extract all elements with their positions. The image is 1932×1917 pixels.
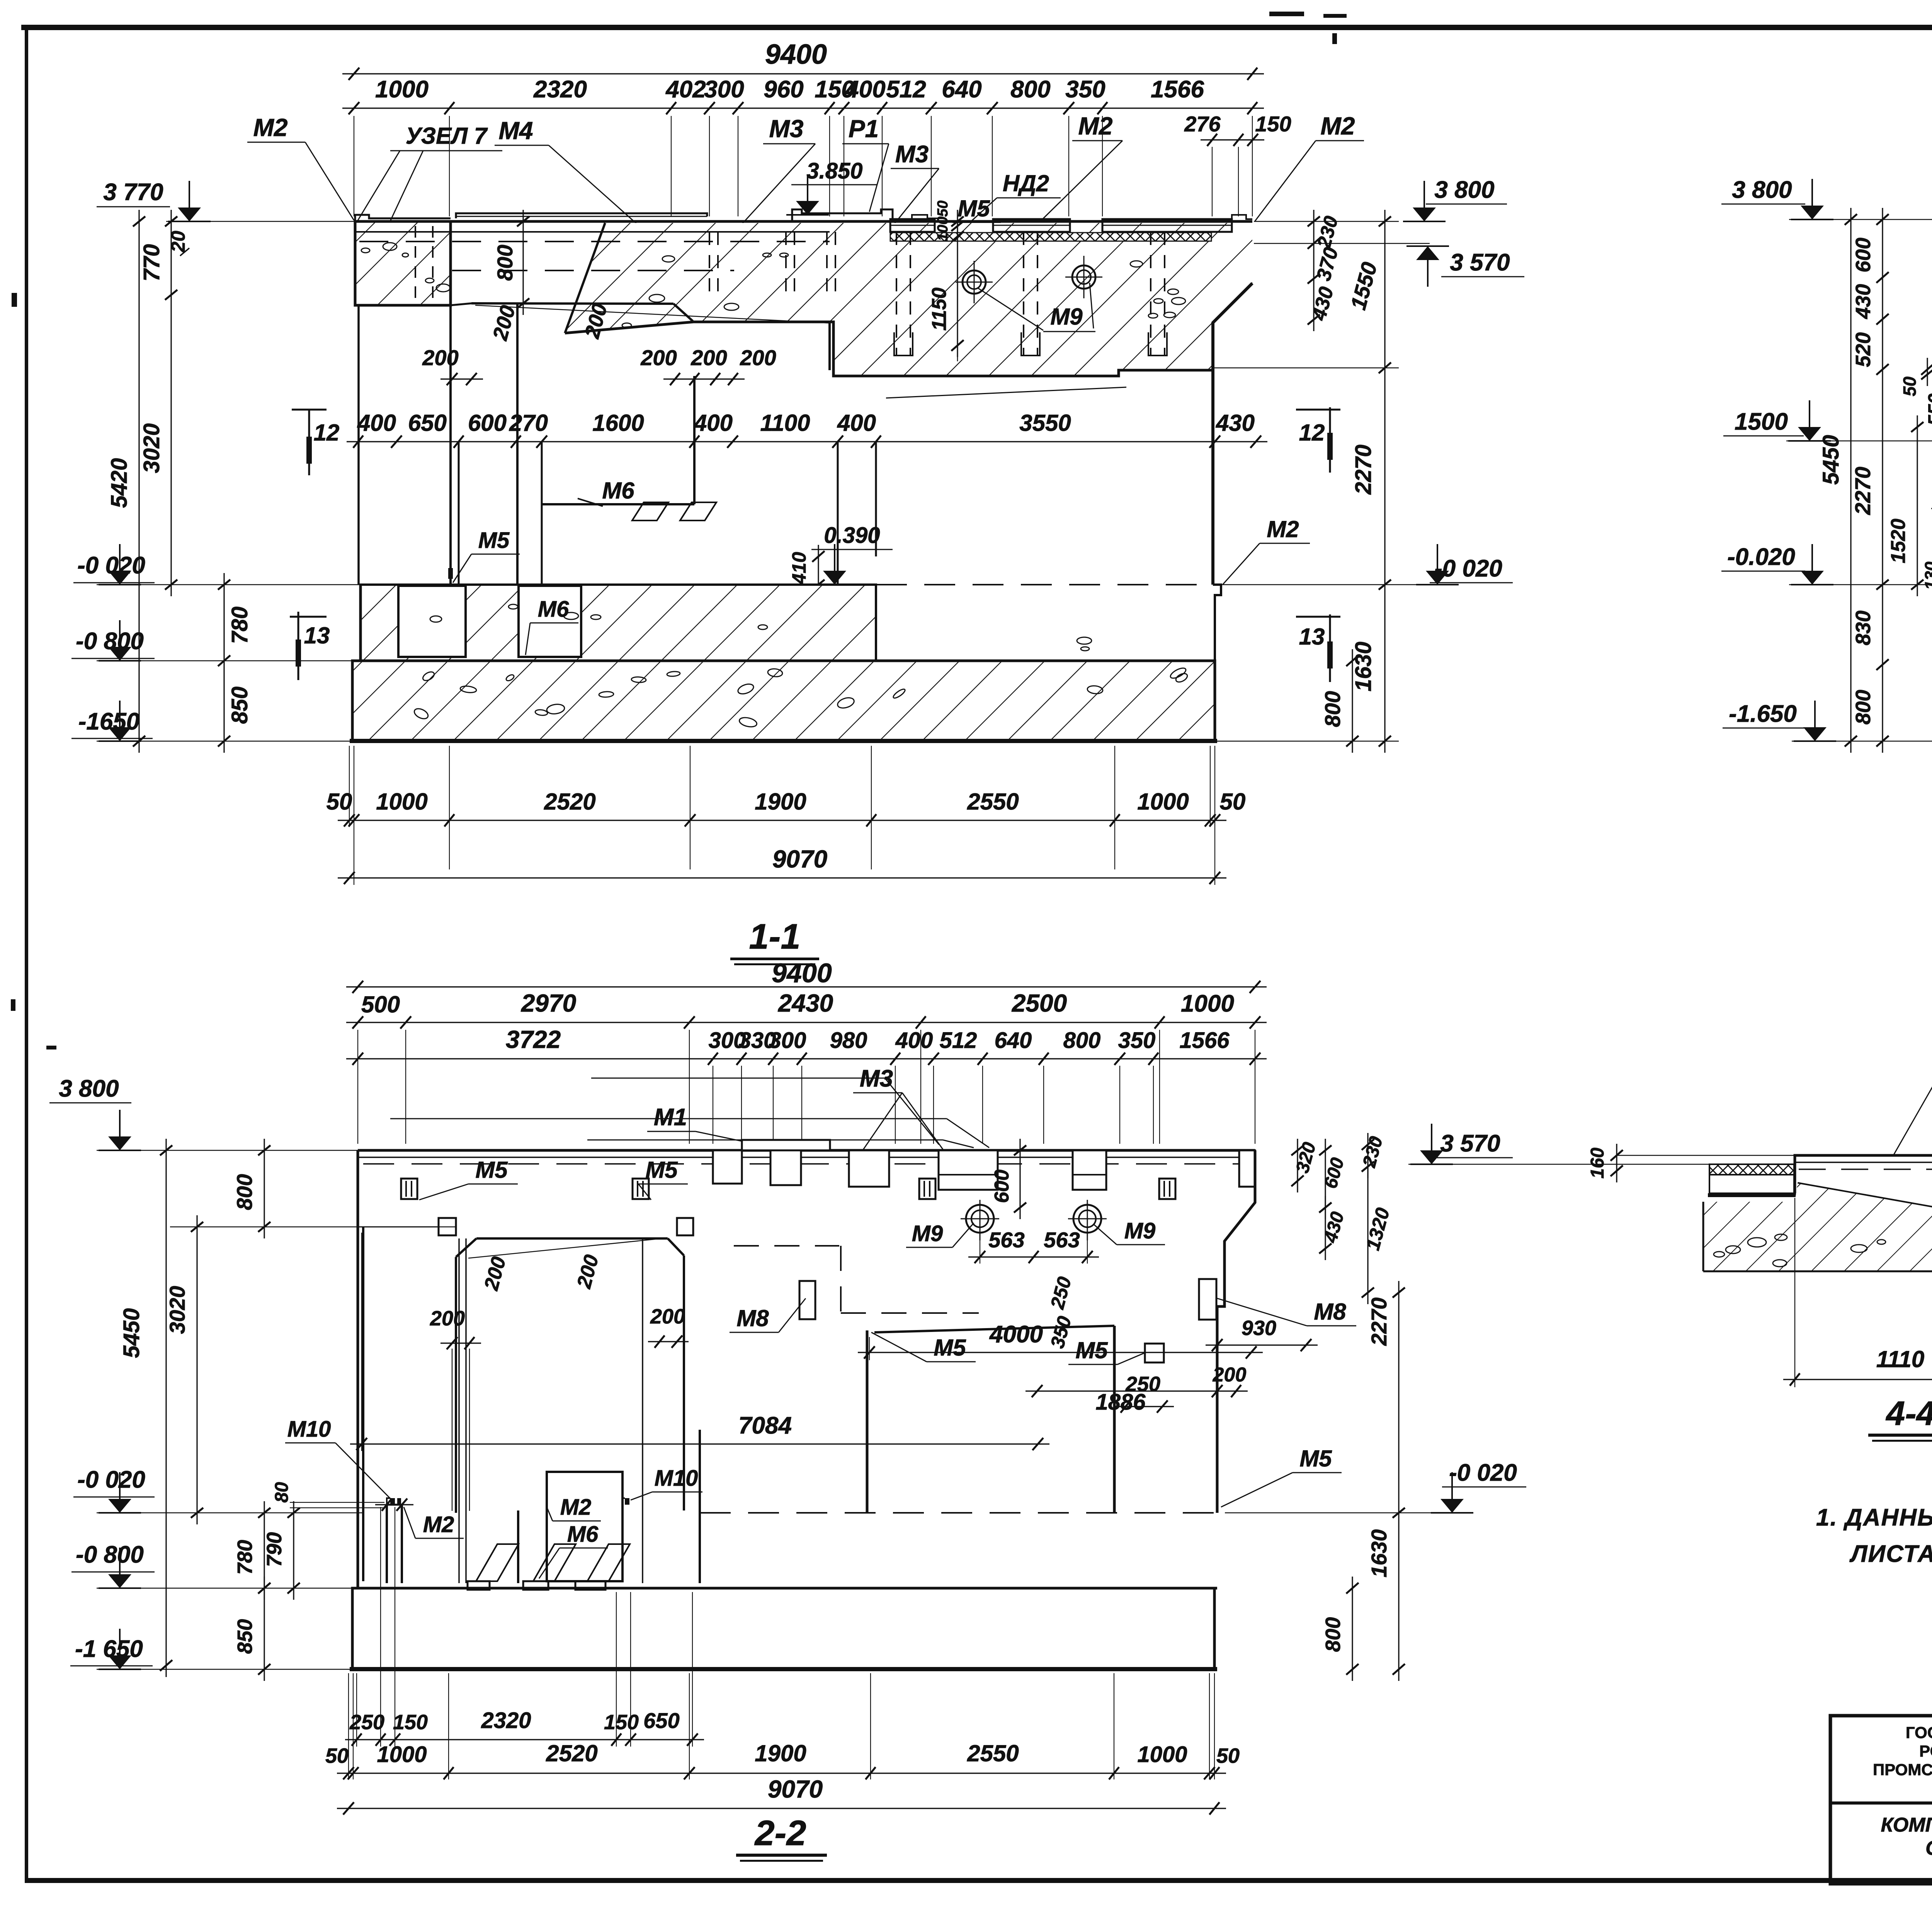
- dashed hidden line at -0.020 right part: [876, 584, 1213, 585]
- svg-text:-0.020: -0.020: [1727, 544, 1795, 570]
- section 2-2 dim row 3722 and small dims: [346, 1058, 1267, 1059]
- svg-text:2270: 2270: [1367, 1298, 1391, 1346]
- svg-text:КОМПРЕССОРНАЯ: КОМПРЕССОРНАЯ: [1881, 1814, 1932, 1836]
- top right corner curb: [1232, 215, 1252, 219]
- svg-text:600: 600: [468, 410, 507, 436]
- svg-text:410: 410: [788, 552, 810, 585]
- section 1-1 bottom footing slab hatched: [352, 661, 1215, 741]
- svg-text:1. ДАННЫЙ ЛИСТ РАСМАТРИВАТЬ: 1. ДАННЫЙ ЛИСТ РАСМАТРИВАТЬ СОВМЕСТНО С: [1816, 1504, 1932, 1531]
- footing left step outline: [352, 585, 361, 741]
- svg-text:512: 512: [886, 76, 926, 103]
- svg-text:3020: 3020: [139, 423, 164, 473]
- svg-text:1900: 1900: [755, 789, 806, 815]
- svg-text:780: 780: [233, 1540, 257, 1575]
- small M5 anchor tab on pedestal: [448, 568, 453, 579]
- svg-text:150: 150: [1255, 112, 1291, 136]
- left dim chain 5420: [138, 210, 139, 753]
- 2-2 inner cavity outline: [866, 1330, 869, 1513]
- svg-text:-1 650: -1 650: [75, 1636, 143, 1662]
- 2-2 dim 7084: [350, 1443, 1049, 1444]
- 2-2 dashed -0.020 line: [700, 1512, 1217, 1514]
- left face line of foundation: [357, 305, 360, 585]
- svg-text:800: 800: [232, 1174, 257, 1210]
- M5 cube elements on step: [439, 1218, 456, 1235]
- svg-text:M5: M5: [478, 528, 510, 553]
- svg-text:3020: 3020: [165, 1286, 189, 1334]
- 2-2 left chains 780/790/850: [264, 1501, 265, 1600]
- 2-2 M10 bolt right: [625, 1498, 629, 1505]
- 2-2 left chain 5450 3020: [165, 1139, 167, 1677]
- svg-text:УЗЕЛ 7: УЗЕЛ 7: [406, 123, 488, 149]
- svg-text:M3: M3: [769, 115, 804, 143]
- 2-2 pedestal top with chamfers: [476, 1237, 668, 1240]
- svg-text:3 800: 3 800: [1732, 177, 1792, 203]
- svg-text:1000: 1000: [1181, 990, 1234, 1017]
- svg-text:12: 12: [314, 420, 340, 446]
- plate P1 pocket at 3.850: [792, 209, 893, 221]
- 2-2 right small chains: [1297, 1139, 1298, 1192]
- svg-text:РОСТОВСКИЙ: РОСТОВСКИЙ: [1919, 1742, 1932, 1760]
- svg-text:-0 020: -0 020: [1434, 555, 1502, 582]
- svg-text:M8: M8: [736, 1305, 769, 1331]
- 2-2 cavity right wall verticals: [642, 1238, 643, 1583]
- svg-text:ЛИСТАМИ КЖ-31, КЖ-33÷КЖ-35.: ЛИСТАМИ КЖ-31, КЖ-33÷КЖ-35.: [1849, 1541, 1932, 1567]
- svg-text:2520: 2520: [546, 1740, 597, 1766]
- svg-text:50: 50: [935, 201, 951, 217]
- svg-text:M5: M5: [1075, 1337, 1108, 1363]
- 2-2 right chain 2270/1630/800: [1398, 1281, 1399, 1681]
- svg-text:9070: 9070: [768, 1775, 823, 1803]
- svg-text:20: 20: [167, 231, 189, 253]
- svg-text:2970: 2970: [521, 989, 576, 1017]
- svg-text:780: 780: [227, 607, 252, 644]
- svg-text:-0 800: -0 800: [76, 628, 144, 655]
- svg-text:1100: 1100: [760, 410, 810, 436]
- svg-text:930: 930: [1242, 1317, 1276, 1340]
- svg-text:80: 80: [272, 1482, 292, 1503]
- svg-text:50: 50: [1216, 1744, 1240, 1767]
- slanted thin construction line: [475, 305, 830, 323]
- 3-3 left main chain 5450: [1850, 208, 1851, 753]
- 2-2 top pockets and plates: [742, 1140, 830, 1150]
- svg-text:M3: M3: [860, 1065, 893, 1092]
- svg-text:5450: 5450: [1818, 435, 1844, 485]
- right extension lines: [1254, 221, 1399, 222]
- pedestal top chamfer lines: [471, 303, 673, 304]
- dim 276/150 top right: [1201, 139, 1264, 140]
- svg-text:200: 200: [650, 1305, 685, 1328]
- svg-text:3550: 3550: [1019, 410, 1071, 436]
- section 1-1 cut mark 13 right: [1296, 616, 1340, 618]
- svg-text:M6: M6: [567, 1522, 599, 1547]
- svg-text:M4: M4: [499, 117, 533, 145]
- svg-text:1110: 1110: [1876, 1346, 1925, 1372]
- svg-text:960: 960: [764, 76, 803, 103]
- section 1-1 sub dimension line: [342, 107, 1264, 109]
- svg-text:1150: 1150: [928, 287, 951, 331]
- svg-text:3.850: 3.850: [806, 158, 862, 184]
- svg-text:830: 830: [1852, 611, 1875, 645]
- svg-text:800: 800: [1320, 691, 1345, 727]
- opening walls mid: [693, 376, 696, 504]
- page frame top line: [21, 25, 1932, 30]
- svg-text:1886: 1886: [1095, 1390, 1146, 1415]
- 2-2 internal pedestals verticals: [362, 1227, 364, 1581]
- svg-text:430: 430: [1852, 284, 1875, 319]
- svg-text:M2: M2: [1078, 112, 1113, 140]
- pebble texture in footing: [631, 677, 646, 683]
- svg-text:400: 400: [837, 410, 876, 436]
- svg-text:M2: M2: [423, 1512, 454, 1537]
- vertical dim 1150/100/50 at anchor: [957, 210, 958, 357]
- svg-text:50: 50: [1900, 376, 1920, 396]
- svg-text:M5: M5: [645, 1157, 678, 1183]
- section 1-1 left hatched block: [355, 221, 451, 305]
- svg-text:M2: M2: [1321, 112, 1355, 140]
- anchor dashed boxes in left block: [415, 226, 416, 301]
- svg-text:-0 020: -0 020: [1449, 1459, 1517, 1486]
- svg-text:ГОССТРОЙ СССР: ГОССТРОЙ СССР: [1906, 1723, 1932, 1742]
- svg-text:1000: 1000: [1137, 1742, 1187, 1767]
- page frame bottom line: [25, 1878, 1932, 1883]
- svg-text:350: 350: [1065, 76, 1105, 103]
- svg-text:M5: M5: [1299, 1446, 1332, 1471]
- svg-text:512: 512: [940, 1028, 977, 1053]
- svg-text:270: 270: [509, 410, 548, 436]
- pocket M6 right white: [519, 586, 581, 657]
- top-left corner curb: [355, 215, 451, 221]
- 2-2 dim 4000: [858, 1352, 1263, 1353]
- svg-text:M6: M6: [602, 478, 634, 503]
- svg-text:563: 563: [1044, 1228, 1080, 1252]
- 2-2 M6 parallelogram strips: [476, 1544, 519, 1581]
- svg-text:350: 350: [1118, 1028, 1156, 1053]
- svg-text:1000: 1000: [377, 1742, 427, 1767]
- right body edge below mass: [1212, 370, 1214, 585]
- 2-2 dims 1886/200: [1026, 1390, 1248, 1391]
- svg-text:2320: 2320: [481, 1708, 531, 1733]
- svg-text:13: 13: [1299, 624, 1325, 650]
- svg-text:M3: M3: [895, 141, 929, 168]
- svg-text:M9: M9: [1050, 304, 1083, 330]
- 2-2 slanted construction line: [468, 1238, 666, 1258]
- svg-text:130: 130: [1922, 561, 1932, 590]
- 4-4 dim 1110: [1783, 1379, 1932, 1380]
- svg-text:2520: 2520: [544, 789, 595, 815]
- svg-text:550: 550: [1924, 393, 1932, 426]
- page frame left line: [25, 25, 28, 1883]
- svg-text:2320: 2320: [533, 76, 587, 103]
- svg-text:850: 850: [227, 687, 252, 724]
- M5 hanger anchors below top: [401, 1179, 417, 1199]
- svg-text:5420: 5420: [107, 458, 132, 508]
- curb plates on top band left part: [456, 213, 707, 218]
- mass outline edges: [565, 322, 1213, 376]
- svg-text:800: 800: [1321, 1617, 1345, 1652]
- 2-2 M9 circles: [966, 1205, 994, 1233]
- title block outer box: [1830, 1716, 1932, 1884]
- section 1-1 mid dimension chain: [347, 441, 1267, 442]
- 2-2 left edge and footing: [357, 1150, 359, 1588]
- svg-text:200: 200: [1213, 1364, 1247, 1386]
- small curb M3 right of P1: [912, 215, 943, 221]
- 3-3 inner chain 50/550/1520/130/20: [1927, 358, 1928, 386]
- svg-text:200: 200: [690, 345, 727, 370]
- svg-text:3 570: 3 570: [1440, 1130, 1500, 1157]
- 2-2 top surface: [358, 1149, 1255, 1152]
- pedestal verticals below top band: [449, 305, 452, 585]
- svg-text:2270: 2270: [1351, 444, 1376, 495]
- svg-text:2500: 2500: [1012, 989, 1067, 1017]
- svg-text:M1: M1: [654, 1104, 687, 1131]
- right main chain 1550/2270/1630: [1384, 210, 1385, 753]
- svg-text:300: 300: [704, 76, 744, 103]
- svg-text:650: 650: [408, 410, 447, 436]
- svg-text:3 770: 3 770: [103, 179, 163, 206]
- svg-text:200: 200: [640, 345, 677, 370]
- leader lines M1/M3 horizontal: [390, 1118, 947, 1119]
- svg-text:НД2: НД2: [1003, 170, 1049, 196]
- top edge registration ticks: [1269, 12, 1304, 16]
- 2-2 left dim 800: [264, 1139, 265, 1238]
- footing bottom thick line: [350, 739, 1217, 743]
- 2-2 M8 plates: [799, 1281, 815, 1319]
- svg-text:2430: 2430: [778, 989, 833, 1017]
- svg-text:600: 600: [991, 1170, 1013, 1203]
- bottom extension lines: [349, 746, 350, 827]
- svg-text:P1: P1: [849, 115, 879, 143]
- svg-text:5450: 5450: [119, 1308, 144, 1358]
- 4-4 thick diagonal: [1798, 1184, 1932, 1222]
- 2-2 feet at -0.800: [468, 1581, 490, 1590]
- svg-text:500: 500: [361, 992, 400, 1017]
- svg-text:400: 400: [694, 410, 733, 436]
- section 1-1 cut mark 12 left: [292, 409, 327, 411]
- svg-text:1500: 1500: [1735, 408, 1788, 435]
- svg-text:1630: 1630: [1367, 1529, 1391, 1578]
- M9 anchor circles: [963, 270, 986, 294]
- vertical 800 dim: [522, 210, 524, 315]
- section 1-1 cut mark 13 left: [290, 616, 327, 618]
- svg-text:9400: 9400: [772, 958, 832, 988]
- svg-text:4000: 4000: [989, 1321, 1043, 1348]
- 2-2 footing outline: [352, 1588, 1217, 1669]
- 2-2 bottom dim row B: [337, 1772, 1226, 1774]
- 4-4 left floor concrete band: [1709, 1175, 1794, 1193]
- svg-text:400: 400: [895, 1028, 933, 1053]
- svg-text:300: 300: [769, 1028, 806, 1053]
- svg-text:2270: 2270: [1850, 467, 1875, 515]
- svg-text:2550: 2550: [967, 789, 1019, 815]
- svg-text:800: 800: [1852, 690, 1875, 725]
- right sub dim 800: [1352, 649, 1353, 753]
- svg-text:1630: 1630: [1351, 641, 1376, 691]
- section 1-1 extension lines from top dims: [354, 116, 354, 216]
- svg-text:M5: M5: [934, 1335, 966, 1361]
- svg-text:790: 790: [263, 1532, 286, 1567]
- svg-text:1900: 1900: [755, 1740, 806, 1766]
- 2-2 dim 600 vertical: [1019, 1139, 1020, 1219]
- 2-2 M5 box right of cavity: [1145, 1344, 1164, 1362]
- svg-text:1000: 1000: [375, 76, 429, 103]
- svg-text:50: 50: [325, 1744, 349, 1767]
- svg-text:100: 100: [935, 216, 951, 241]
- svg-text:520: 520: [1852, 332, 1875, 367]
- section 2-2 top dim 9400: [346, 986, 1267, 987]
- svg-text:640: 640: [942, 76, 981, 103]
- svg-text:9070: 9070: [772, 845, 827, 873]
- 4-4 hatched base: [1703, 1184, 1932, 1271]
- left dim chain 780/850: [223, 573, 224, 753]
- svg-text:800: 800: [1010, 76, 1050, 103]
- title block divider col1: [1830, 1801, 1932, 1805]
- svg-text:800: 800: [493, 245, 517, 281]
- right mini chain 230/370/430: [1313, 210, 1314, 331]
- 2-2 right profile: [1217, 1150, 1255, 1513]
- 2-2 M10 bolts left: [390, 1498, 395, 1505]
- svg-text:3 570: 3 570: [1450, 249, 1510, 276]
- svg-text:850: 850: [233, 1619, 257, 1654]
- svg-text:1520: 1520: [1887, 519, 1910, 563]
- pocket M6 left white: [398, 586, 466, 657]
- 2-2 extension lines from dims: [357, 1030, 358, 1144]
- 2-2 dashed hidden pit lines: [734, 1245, 839, 1247]
- svg-text:276: 276: [1184, 112, 1221, 136]
- svg-text:1566: 1566: [1179, 1028, 1230, 1053]
- svg-text:1-1: 1-1: [749, 917, 801, 956]
- svg-text:400: 400: [845, 76, 885, 103]
- section 1-1 top surface line: [354, 220, 1252, 223]
- section 1-1 lower slab hatched with pockets: [361, 585, 876, 661]
- svg-text:150: 150: [604, 1711, 639, 1734]
- svg-text:430: 430: [1216, 410, 1255, 436]
- svg-text:3722: 3722: [506, 1026, 561, 1053]
- 2-2 dim 563 563: [968, 1256, 1099, 1257]
- svg-text:800: 800: [1063, 1028, 1101, 1053]
- svg-text:563: 563: [988, 1228, 1024, 1252]
- svg-text:9400: 9400: [765, 39, 827, 70]
- 2-2 step line at 800: [358, 1226, 439, 1228]
- 3-3 left sub chain 600/430/520/2270/830/800: [1882, 208, 1883, 753]
- section 1-1 big upper hatched mass: [565, 223, 1252, 376]
- M6 shelf in opening: [542, 503, 694, 505]
- rail plates on top right part: [890, 219, 935, 232]
- left edge scan marks: [12, 293, 17, 307]
- svg-text:160: 160: [1587, 1148, 1608, 1179]
- 2-2 dim 930: [1206, 1344, 1318, 1345]
- svg-text:M2: M2: [253, 114, 288, 141]
- 4-4 pebbles: [1775, 1234, 1787, 1240]
- svg-text:M9: M9: [912, 1221, 943, 1246]
- svg-text:7084: 7084: [738, 1412, 792, 1439]
- svg-text:770: 770: [139, 244, 164, 282]
- svg-text:3 800: 3 800: [59, 1075, 119, 1102]
- svg-text:1000: 1000: [1137, 789, 1189, 815]
- grout crosshatch layer right part: [890, 233, 1211, 241]
- svg-text:M5: M5: [475, 1157, 508, 1183]
- svg-text:12: 12: [1299, 420, 1325, 446]
- svg-text:200: 200: [422, 345, 458, 370]
- svg-text:1000: 1000: [376, 789, 427, 815]
- svg-text:M2: M2: [1267, 516, 1299, 542]
- 2-2 tall pedestal M2: [547, 1472, 622, 1581]
- svg-text:1600: 1600: [592, 410, 644, 436]
- svg-text:-1.650: -1.650: [1729, 701, 1797, 727]
- section 2-2 dim row 500/2970/2430/2500/1000: [346, 1022, 1267, 1023]
- svg-text:-0 800: -0 800: [76, 1541, 144, 1568]
- svg-text:13: 13: [304, 623, 330, 648]
- svg-text:4-4: 4-4: [1885, 1394, 1932, 1432]
- svg-text:2-2: 2-2: [754, 1813, 806, 1853]
- svg-text:50: 50: [327, 789, 352, 815]
- svg-text:640: 640: [995, 1028, 1032, 1053]
- svg-text:M10: M10: [655, 1466, 698, 1491]
- section 1-1 cut mark 12 right: [1296, 409, 1340, 411]
- 2-2 bottom dim 9070: [337, 1808, 1226, 1809]
- svg-text:600: 600: [1852, 238, 1875, 272]
- svg-text:-0 020: -0 020: [77, 552, 145, 579]
- svg-text:50: 50: [1220, 789, 1246, 815]
- svg-text:СТАНЦИЯ: СТАНЦИЯ: [1925, 1837, 1932, 1859]
- section 1-1 top dimension line 9400: [342, 73, 1264, 74]
- svg-text:M8: M8: [1314, 1299, 1346, 1325]
- 4-4 dim 160: [1616, 1144, 1617, 1182]
- svg-text:M10: M10: [287, 1417, 331, 1442]
- 4-4 left floor strip crosshatch: [1709, 1164, 1794, 1175]
- top band second line and dashed line: [355, 231, 830, 233]
- 2-2 bottom dim row A: [345, 1739, 704, 1740]
- anchor bolt dashed lines in mass: [896, 232, 897, 356]
- svg-text:402: 402: [665, 76, 706, 103]
- svg-text:-0 020: -0 020: [77, 1466, 145, 1493]
- svg-text:3 800: 3 800: [1434, 177, 1494, 203]
- 4-4 main body outline: [1795, 1155, 1932, 1222]
- M2 lip right at -0.020: [1213, 585, 1221, 661]
- svg-text:ПРОМСТРОЙНИИПРОЕКТ: ПРОМСТРОЙНИИПРОЕКТ: [1873, 1760, 1932, 1779]
- left dim chain 770/3020: [170, 210, 172, 596]
- svg-text:150: 150: [393, 1711, 428, 1734]
- section 1-1 bottom dim row: [338, 820, 1226, 821]
- svg-text:2550: 2550: [967, 1740, 1019, 1766]
- svg-text:-1650: -1650: [78, 708, 140, 735]
- svg-text:M2: M2: [560, 1495, 592, 1520]
- svg-text:250: 250: [349, 1711, 384, 1734]
- svg-text:200: 200: [740, 345, 776, 370]
- svg-text:650: 650: [643, 1708, 679, 1733]
- svg-text:0.390: 0.390: [824, 523, 880, 548]
- thin hidden slope line in void: [886, 387, 1126, 398]
- section 1-1 bottom dim 9070: [338, 877, 1226, 878]
- svg-text:400: 400: [357, 410, 396, 436]
- svg-text:1566: 1566: [1151, 76, 1204, 103]
- svg-text:M9: M9: [1124, 1218, 1156, 1243]
- svg-text:980: 980: [830, 1028, 867, 1053]
